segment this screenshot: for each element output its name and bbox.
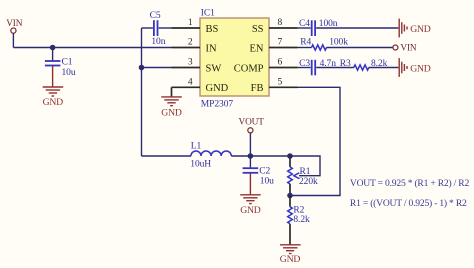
capacitor C2 bbox=[243, 156, 275, 195]
svg-text:VIN: VIN bbox=[6, 19, 23, 29]
port VIN (top-left) bbox=[6, 19, 23, 33]
wire L1 to VOUT node bbox=[231, 155, 290, 157]
svg-text:R4: R4 bbox=[300, 38, 311, 48]
pin 7 EN bbox=[250, 38, 298, 55]
svg-text:IN: IN bbox=[206, 43, 217, 54]
wire VIN vertical bbox=[12, 33, 14, 48]
svg-text:8.2k: 8.2k bbox=[293, 215, 310, 225]
ground (under R2) bbox=[280, 245, 301, 265]
svg-text:SS: SS bbox=[252, 24, 264, 35]
svg-text:IC1: IC1 bbox=[201, 8, 215, 18]
svg-text:C2: C2 bbox=[259, 167, 270, 177]
svg-text:10n: 10n bbox=[151, 37, 165, 47]
svg-text:VOUT = 0.925 * (R1 + R2) / R2: VOUT = 0.925 * (R1 + R2) / R2 bbox=[350, 178, 470, 189]
svg-text:EN: EN bbox=[250, 43, 264, 54]
svg-text:R1: R1 bbox=[300, 167, 311, 177]
svg-text:GND: GND bbox=[280, 254, 301, 265]
svg-text:C4: C4 bbox=[299, 19, 310, 29]
port VOUT bbox=[239, 118, 265, 156]
junction SW bbox=[139, 65, 145, 71]
svg-text:MP2307: MP2307 bbox=[201, 99, 234, 109]
svg-text:R3: R3 bbox=[340, 59, 351, 69]
capacitor C4 bbox=[298, 19, 399, 36]
port VIN (right) bbox=[393, 44, 417, 54]
svg-text:GND: GND bbox=[410, 24, 431, 35]
svg-text:6: 6 bbox=[278, 58, 283, 68]
wire BS cap to SW net vertical bbox=[141, 28, 143, 156]
svg-text:10u: 10u bbox=[62, 68, 76, 78]
svg-text:BS: BS bbox=[206, 24, 219, 35]
pin 5 FB bbox=[251, 78, 298, 95]
svg-text:8: 8 bbox=[278, 18, 283, 28]
capacitor C1 bbox=[45, 48, 76, 88]
resistor R3 bbox=[340, 59, 399, 70]
svg-text:220k: 220k bbox=[299, 177, 318, 187]
pin 6 COMP bbox=[234, 58, 298, 75]
svg-text:10uH: 10uH bbox=[190, 159, 211, 169]
svg-text:VOUT: VOUT bbox=[239, 118, 265, 128]
resistor R1 (220k pot as rheostat) bbox=[288, 156, 320, 196]
resistor R2 bbox=[288, 196, 310, 245]
resistor R4 bbox=[298, 38, 393, 51]
junction VOUT bbox=[248, 153, 254, 159]
inductor L1 bbox=[190, 141, 231, 169]
svg-text:VIN: VIN bbox=[400, 44, 417, 54]
svg-text:GND: GND bbox=[410, 63, 431, 74]
svg-text:5: 5 bbox=[278, 78, 283, 88]
wire VIN to IN pin bbox=[13, 47, 171, 49]
ground (under C1) bbox=[43, 87, 64, 108]
capacitor C5 bbox=[142, 11, 172, 47]
pin 8 SS bbox=[252, 18, 298, 35]
svg-text:10u: 10u bbox=[260, 177, 274, 187]
svg-text:1: 1 bbox=[188, 18, 193, 28]
wire SW pin bbox=[142, 67, 172, 69]
svg-text:2: 2 bbox=[188, 38, 193, 48]
svg-text:GND: GND bbox=[206, 83, 229, 94]
svg-text:3: 3 bbox=[188, 58, 193, 68]
svg-text:C1: C1 bbox=[62, 58, 73, 68]
pin 1 BS bbox=[172, 18, 219, 35]
IC IC1 (MP2307) body bbox=[200, 8, 269, 109]
pin 2 IN bbox=[172, 38, 217, 55]
wire SW net to L1 bbox=[142, 155, 192, 157]
junction R1 top bbox=[287, 153, 293, 159]
svg-text:L1: L1 bbox=[191, 141, 202, 151]
svg-text:GND: GND bbox=[161, 107, 182, 118]
ground (SS row, sideways) bbox=[399, 19, 431, 38]
junction R1 bottom / FB bbox=[287, 193, 293, 199]
capacitor C3 bbox=[298, 59, 354, 75]
ground (COMP row, sideways) bbox=[399, 58, 431, 77]
svg-text:4: 4 bbox=[188, 78, 193, 88]
svg-text:R1 = ((VOUT / 0.925) - 1) * R2: R1 = ((VOUT / 0.925) - 1) * R2 bbox=[350, 198, 467, 209]
svg-text:GND: GND bbox=[43, 97, 64, 108]
ground (under C2) bbox=[240, 195, 261, 216]
svg-text:GND: GND bbox=[240, 205, 261, 216]
pin 4 GND bbox=[172, 78, 229, 95]
svg-text:C5: C5 bbox=[150, 11, 161, 21]
svg-text:C3: C3 bbox=[299, 59, 310, 69]
svg-text:SW: SW bbox=[206, 63, 222, 74]
wire FB to divider bbox=[290, 87, 340, 195]
svg-text:100k: 100k bbox=[329, 38, 348, 48]
pin 3 SW bbox=[172, 58, 222, 75]
svg-text:FB: FB bbox=[251, 83, 264, 94]
ground (IC pin 4) bbox=[161, 87, 182, 118]
svg-text:COMP: COMP bbox=[234, 63, 264, 74]
junction VIN/C1 bbox=[50, 45, 56, 51]
svg-text:R2: R2 bbox=[293, 206, 304, 216]
svg-text:7: 7 bbox=[278, 38, 283, 48]
